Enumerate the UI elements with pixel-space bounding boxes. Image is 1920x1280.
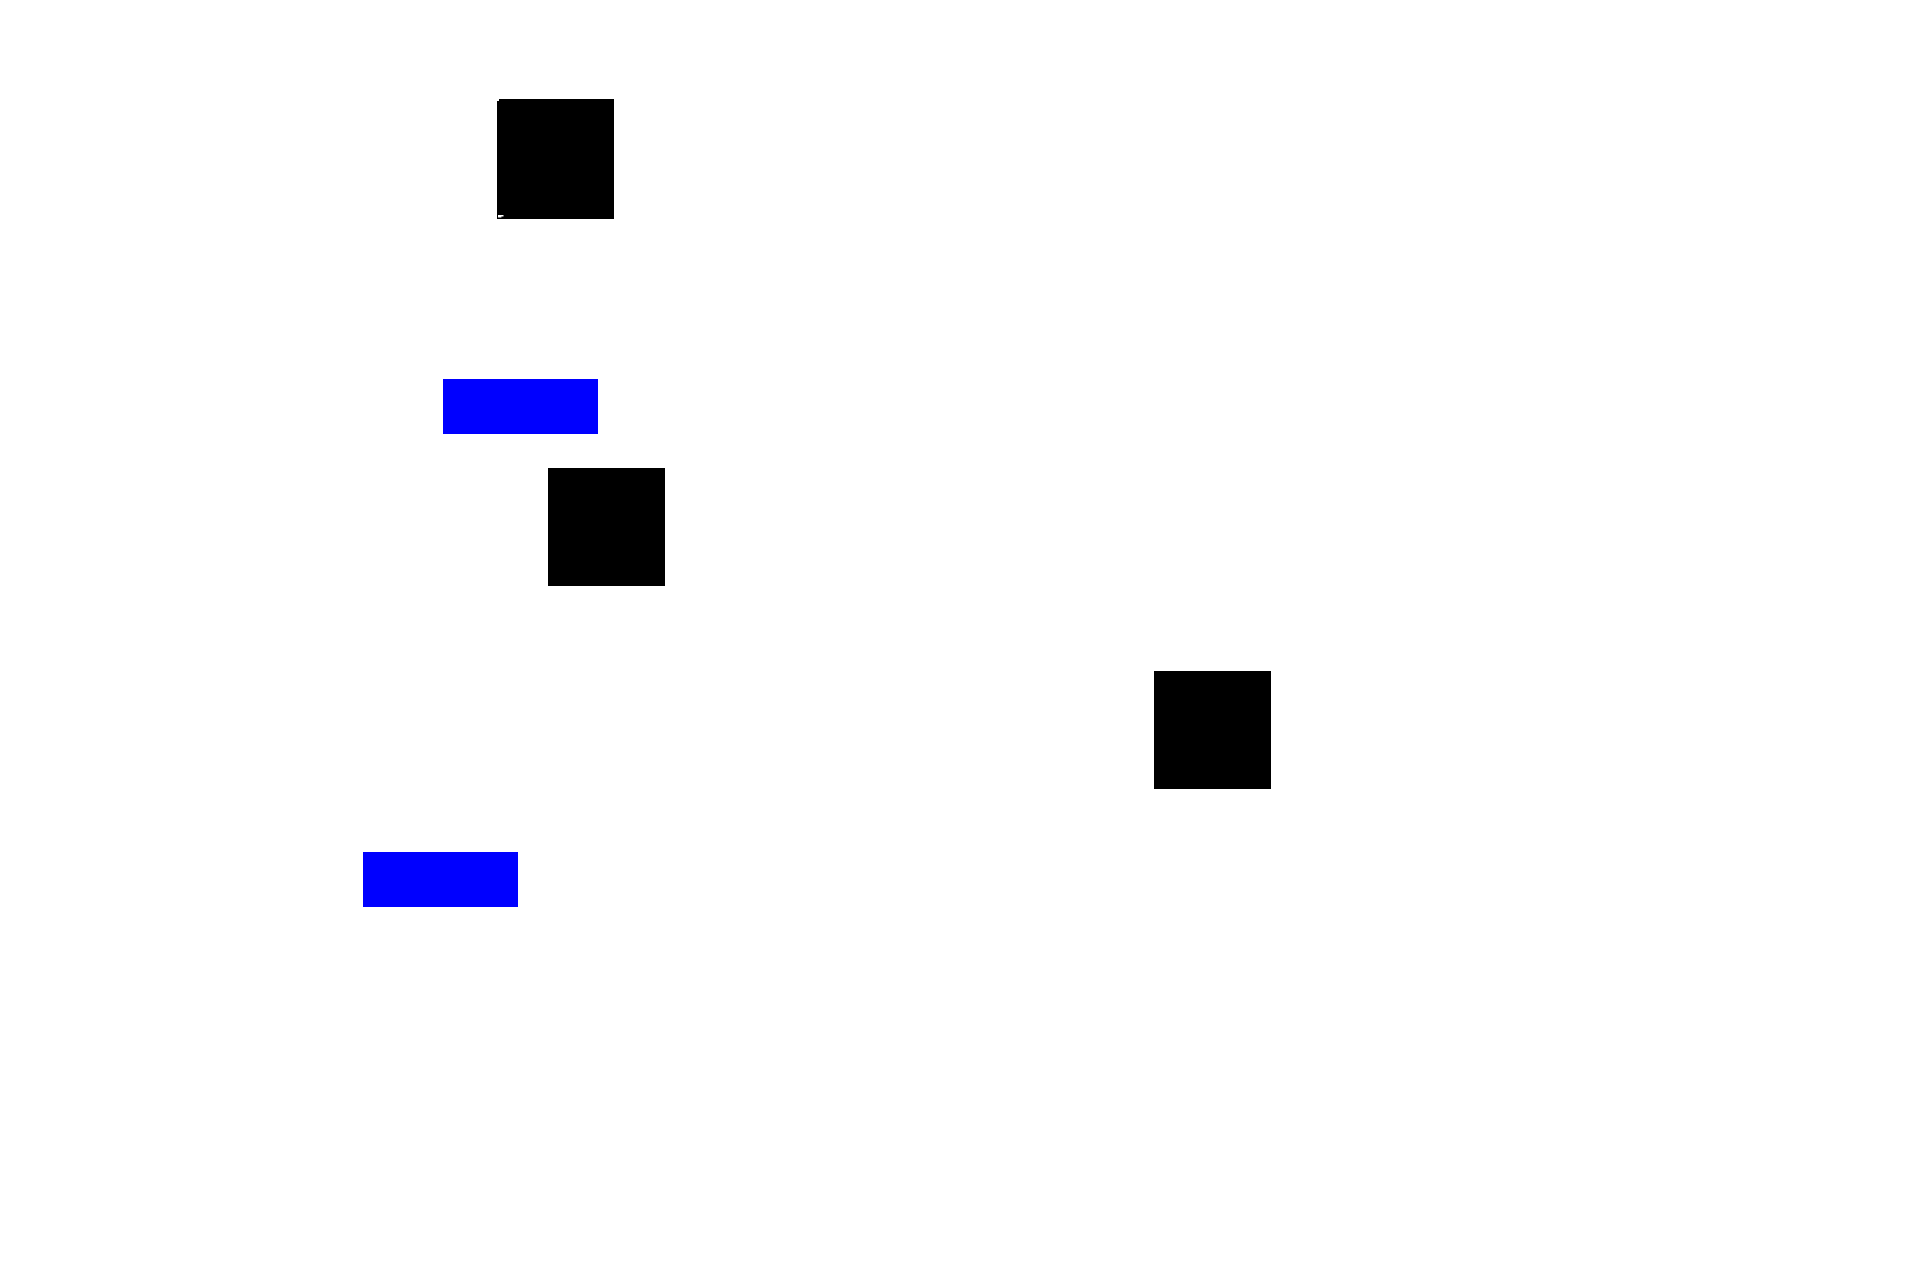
black square 3 (1154, 671, 1271, 789)
blue rectangle 2 (363, 852, 518, 907)
blue rectangle 1 (443, 379, 598, 434)
top-left corner step of black square 1 (497, 99, 498, 102)
black square 2 (548, 468, 665, 586)
white notch inside black square 1 (498, 215, 504, 218)
black square 1 (497, 99, 614, 219)
